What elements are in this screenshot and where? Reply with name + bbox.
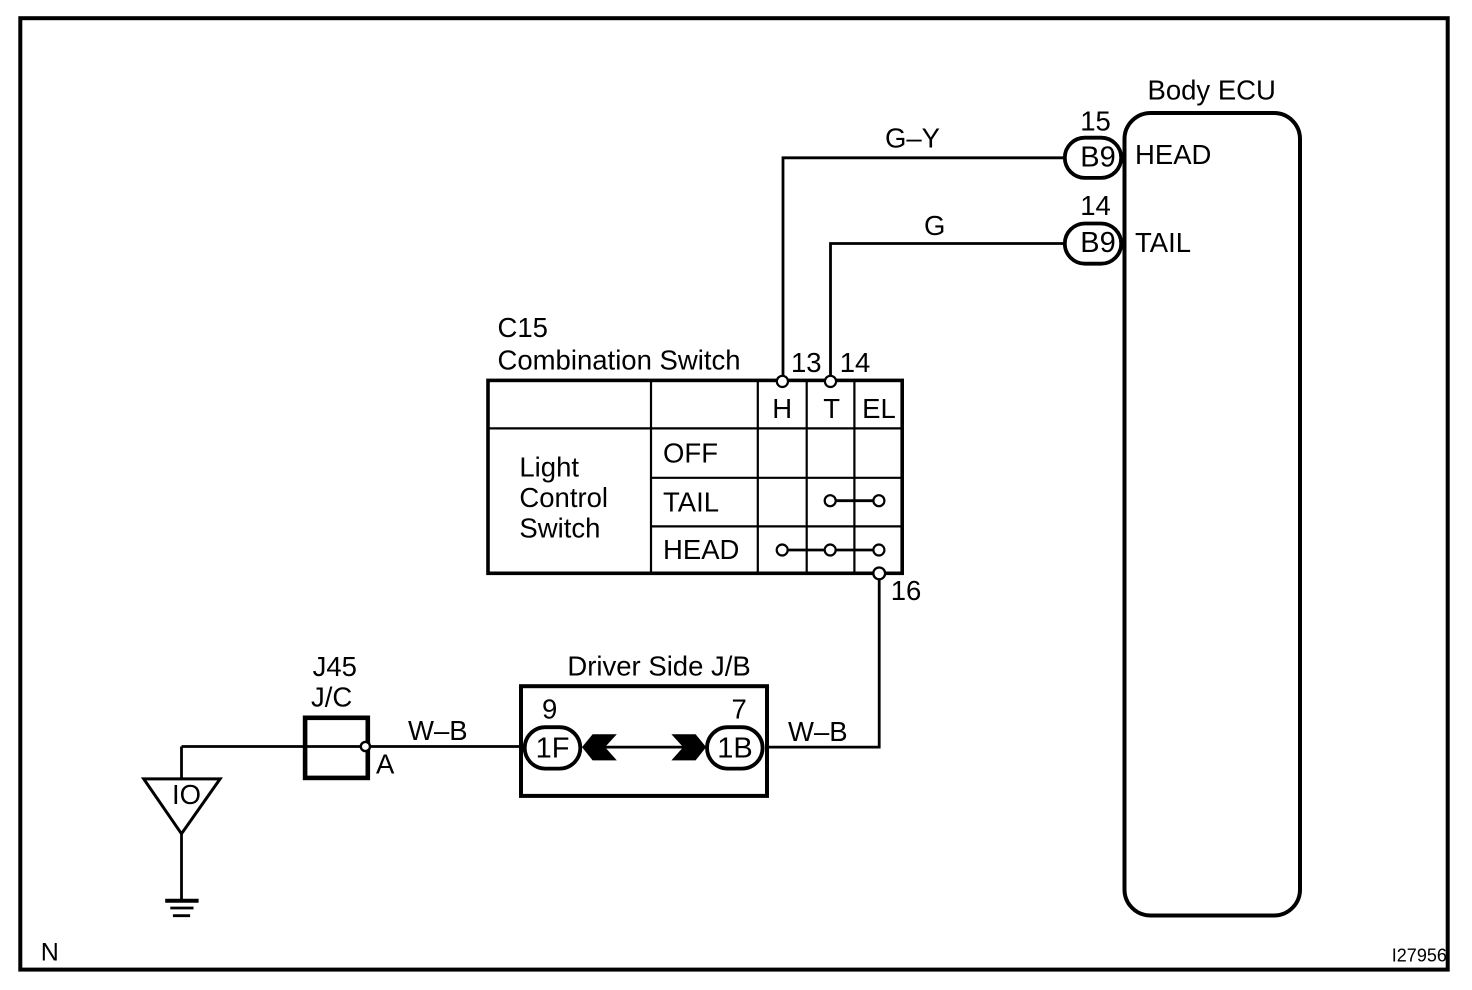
svg-text:Light: Light — [519, 451, 579, 482]
pin 13 node circle — [777, 376, 788, 387]
svg-text:J45: J45 — [313, 651, 357, 682]
wire from triangle to ground — [180, 834, 183, 899]
wire from ground triangle up — [180, 747, 183, 779]
svg-text:1B: 1B — [717, 733, 752, 765]
svg-text:Combination Switch: Combination Switch — [498, 344, 741, 375]
svg-text:W–B: W–B — [408, 715, 468, 746]
J45 junction connector box — [305, 718, 368, 778]
node A circle — [361, 742, 370, 751]
connector 1F — [525, 727, 581, 768]
svg-text:13: 13 — [791, 347, 822, 378]
HEAD row contact link — [782, 549, 879, 552]
wire through J45 from ground — [182, 745, 366, 748]
arrow pointing left — [582, 734, 617, 760]
svg-text:C15: C15 — [498, 312, 548, 343]
svg-text:G: G — [924, 210, 945, 241]
svg-text:W–B: W–B — [788, 716, 848, 747]
svg-text:H: H — [772, 393, 792, 424]
svg-text:OFF: OFF — [663, 437, 718, 468]
svg-text:Control: Control — [519, 482, 608, 513]
svg-text:T: T — [823, 393, 840, 424]
svg-text:9: 9 — [542, 694, 557, 725]
svg-text:14: 14 — [840, 347, 871, 378]
svg-text:Body ECU: Body ECU — [1148, 75, 1276, 106]
svg-text:Switch: Switch — [519, 512, 600, 543]
svg-text:A: A — [376, 749, 395, 780]
svg-text:HEAD: HEAD — [663, 534, 739, 565]
svg-text:1F: 1F — [536, 733, 570, 765]
svg-text:IO: IO — [172, 779, 201, 810]
svg-text:TAIL: TAIL — [663, 486, 719, 517]
arrow pointing right — [671, 734, 706, 760]
Driver Side J/B box — [521, 686, 767, 796]
pin 14 node circle — [825, 376, 836, 387]
svg-text:14: 14 — [1080, 190, 1111, 221]
svg-text:B9: B9 — [1080, 227, 1115, 259]
svg-text:J/C: J/C — [311, 682, 352, 713]
svg-text:EL: EL — [862, 393, 896, 424]
connector B9 pin 15 (HEAD) — [1065, 138, 1121, 178]
svg-text:G–Y: G–Y — [885, 123, 940, 154]
Body ECU box — [1125, 113, 1301, 916]
TAIL row contact link — [830, 499, 879, 502]
wire G-Y from pin 13 to connector B9 HEAD — [783, 158, 1063, 381]
svg-text:N: N — [41, 939, 59, 967]
wire G from pin 14 to connector B9 TAIL — [831, 244, 1064, 382]
svg-text:I27956: I27956 — [1392, 945, 1447, 965]
svg-text:7: 7 — [732, 694, 747, 725]
svg-text:TAIL: TAIL — [1135, 227, 1191, 258]
pin 16 node circle — [873, 568, 885, 580]
combination switch table — [488, 380, 902, 573]
svg-text:HEAD: HEAD — [1135, 139, 1211, 170]
connector B9 pin 14 (TAIL) — [1065, 224, 1121, 264]
svg-text:Driver Side J/B: Driver Side J/B — [567, 651, 750, 682]
svg-text:15: 15 — [1080, 106, 1111, 137]
svg-text:B9: B9 — [1080, 141, 1115, 173]
ground symbol — [165, 901, 198, 916]
ground point triangle IO — [144, 779, 220, 834]
connector 1B — [707, 727, 763, 768]
wire from J45 to 1F — [365, 745, 524, 748]
wire between arrows — [604, 746, 684, 749]
svg-text:16: 16 — [891, 575, 922, 606]
wire from pin 16 down to junction box — [768, 573, 880, 747]
